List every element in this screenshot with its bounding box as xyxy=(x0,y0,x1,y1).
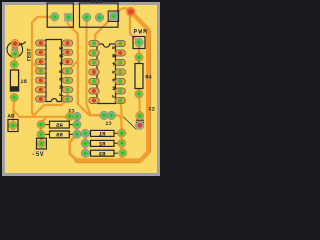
resistor R4 body xyxy=(135,64,143,89)
wire U1 pin4 left stub to left vertical xyxy=(32,62,41,71)
IC U2 pads right column xyxy=(115,41,125,47)
svg-text:R3: R3 xyxy=(98,150,105,157)
IC U1 pads left column pins 1-7 xyxy=(36,40,46,46)
IC U2 body outline xyxy=(97,44,116,104)
wire ground pour shadow edge xyxy=(77,31,151,163)
wire U1 pin4 right stub to mid vertical xyxy=(68,61,78,71)
diode D1 pad bottom xyxy=(10,93,18,101)
svg-text:R2: R2 xyxy=(98,141,105,148)
resistor R1 pad right xyxy=(118,129,126,137)
svg-text:C1: C1 xyxy=(105,121,111,127)
IC U1 body outline xyxy=(46,40,62,102)
wire box1 pad2 down between ICs xyxy=(68,19,87,113)
wire via to PWM pad xyxy=(130,14,139,43)
resistor R2 pad left xyxy=(81,139,89,147)
capacitor C1 pad right xyxy=(107,111,115,119)
pad AD square xyxy=(8,120,18,132)
wire U2 right column chain down through R1-R3 right pads into pour xyxy=(119,102,122,159)
resistor R1 pad left xyxy=(81,129,89,137)
capacitor C2 pad bottom xyxy=(136,121,144,129)
board gray edge xyxy=(2,2,160,176)
svg-text:R6: R6 xyxy=(55,132,62,139)
wire R1 left chain down to R3 left xyxy=(84,133,86,153)
wire R4 bottom to C2 top xyxy=(138,96,141,114)
connector J1 box xyxy=(47,3,73,27)
resistor R5 pad left xyxy=(37,120,45,128)
wire box1 pad1 left and down to bottom horizontal xyxy=(32,17,55,117)
connector J1 pad 1 xyxy=(51,13,59,21)
LED LED1 pad cathode xyxy=(11,50,19,58)
capacitor C2 plates xyxy=(136,120,144,122)
svg-text:D1: D1 xyxy=(20,79,26,85)
svg-text:LED1: LED1 xyxy=(25,48,31,61)
capacitor C2 silk line xyxy=(123,117,137,130)
wire pour arm up to R6 right pad xyxy=(70,134,77,160)
svg-text:-5V: -5V xyxy=(32,151,45,158)
resistor R4 pad bottom xyxy=(135,90,143,98)
resistor R6 pad left xyxy=(37,130,45,138)
resistor R5 pad right xyxy=(73,120,81,128)
resistor R6 pad right xyxy=(73,130,81,138)
resistor R3 pad right xyxy=(119,149,127,157)
svg-text:R5: R5 xyxy=(55,122,62,129)
connector J2 box xyxy=(80,3,119,27)
IC U2 pads left column xyxy=(89,41,99,47)
wire U1 pin6 to pin7 right xyxy=(66,90,68,99)
wire ground pour from via down right side and along bottom xyxy=(76,12,148,161)
resistor R4 pad top xyxy=(135,53,143,61)
connector J1 pad 2 square xyxy=(64,13,72,21)
pad -5V square xyxy=(37,138,47,149)
wire U1 pin7 right under box to bottom horizontal xyxy=(33,99,67,116)
capacitor C3 pad left xyxy=(66,112,74,120)
resistor R2 pad right xyxy=(118,139,126,147)
wire merge mid verticals to C1 left xyxy=(86,112,104,115)
svg-text:R4: R4 xyxy=(145,75,152,81)
svg-text:AD: AD xyxy=(8,113,15,120)
pad PWM square xyxy=(133,37,145,49)
wire C3 right chain down through R5 R6 right pads xyxy=(77,116,85,134)
IC U1 pads right column xyxy=(62,40,72,46)
svg-text:R1: R1 xyxy=(98,131,105,138)
wire PWM pad to R4 top xyxy=(138,45,140,55)
capacitor C3 pad right xyxy=(73,112,81,120)
capacitor C1 pad left xyxy=(100,111,108,119)
wire C1 right over and down xyxy=(111,115,121,118)
resistor R6 body xyxy=(50,131,70,138)
connector J2 pad 3 square pin1 silk xyxy=(108,11,118,21)
connector J2 pad 1 xyxy=(82,13,90,21)
capacitor C2 pad top xyxy=(136,112,144,120)
label J2 cut at top edge xyxy=(91,1,103,3)
resistor R5 body xyxy=(50,121,70,128)
board substrate xyxy=(5,5,157,173)
wire LED1 cathode to D1 anode xyxy=(13,54,16,64)
resistor R2 body xyxy=(91,140,115,146)
wire via to box2 pad3 xyxy=(114,8,131,16)
connector J2 pad 2 xyxy=(95,13,103,21)
diode D1 pad top xyxy=(10,60,18,68)
wire box2 pad1 down left of U2 xyxy=(87,19,105,116)
svg-text:C2: C2 xyxy=(149,107,155,113)
LED1 arrows xyxy=(18,42,25,46)
LED LED1 pad anode xyxy=(11,39,19,47)
via pad top right xyxy=(126,7,136,17)
board frame background xyxy=(0,0,164,180)
wire box2 pad3 diagonal down to U2 pin1 xyxy=(95,16,114,43)
diode D1 body xyxy=(10,70,18,91)
resistor R1 body xyxy=(91,130,115,136)
wire D1 bottom down to AD pad xyxy=(12,98,15,120)
wire branch from D1 trace to bottom horizontal xyxy=(14,111,67,117)
resistor R3 body xyxy=(91,150,115,156)
LED LED1 package circle xyxy=(7,42,23,58)
svg-text:PWM: PWM xyxy=(134,29,149,36)
wire branch to -5V chain xyxy=(41,117,47,144)
resistor R3 pad left xyxy=(81,149,89,157)
